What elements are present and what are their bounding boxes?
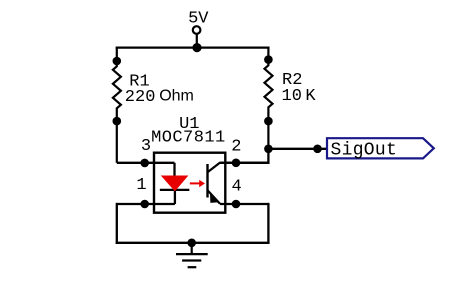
power terminal 5V (193, 26, 201, 47)
ground junction dot (187, 239, 196, 248)
junction dot 5V rail (192, 43, 201, 52)
svg-text:4: 4 (232, 177, 242, 196)
R2 bottom pin dot (264, 117, 273, 126)
svg-text:SigOut: SigOut (331, 140, 398, 160)
svg-text:2: 2 (231, 137, 241, 156)
flag pin dot (313, 145, 322, 154)
LED anode stem (173, 163, 175, 177)
resistor R2 (265, 48, 273, 149)
wire right drop (267, 204, 269, 243)
svg-text:1: 1 (136, 176, 146, 195)
svg-text:220: 220 (125, 88, 156, 107)
R1 bottom pin dot (113, 117, 122, 126)
wire SigOut (268, 148, 327, 150)
ground (176, 243, 208, 267)
svg-text:10: 10 (282, 87, 302, 106)
wire bottom rail (117, 242, 269, 244)
resistor R1 (113, 48, 121, 163)
pin 4 wire (220, 203, 268, 205)
R2 top pin dot (264, 55, 273, 64)
LED cathode stem (174, 190, 176, 204)
pin 3 dot (140, 159, 149, 168)
svg-text:5V: 5V (188, 9, 209, 28)
transistor base bar (206, 164, 208, 198)
signal flag SigOut (327, 138, 434, 158)
svg-text:K: K (305, 87, 316, 106)
LED cathode bar (161, 189, 188, 191)
light arrow (190, 180, 205, 187)
transistor emitter (208, 190, 221, 204)
wire top rail (117, 46, 269, 48)
pin 2 dot (232, 159, 241, 168)
pin 1 wire (117, 203, 175, 205)
pin 1 dot (140, 200, 149, 209)
wire node to pin2 corner (220, 149, 269, 163)
emitter arrowhead (210, 194, 219, 203)
svg-text:MOC7811: MOC7811 (151, 128, 226, 147)
pin 4 dot (232, 200, 241, 209)
node dot (264, 145, 273, 154)
R1 top pin dot (113, 57, 122, 66)
svg-text:Ohm: Ohm (159, 88, 194, 105)
wire left drop (116, 204, 118, 243)
optocoupler U1 box (154, 153, 225, 213)
pin 2 wire (220, 162, 269, 164)
pin 3 wire (117, 162, 175, 164)
transistor collector (208, 163, 220, 172)
svg-text:3: 3 (141, 137, 151, 156)
LED D1 triangle (161, 176, 189, 192)
